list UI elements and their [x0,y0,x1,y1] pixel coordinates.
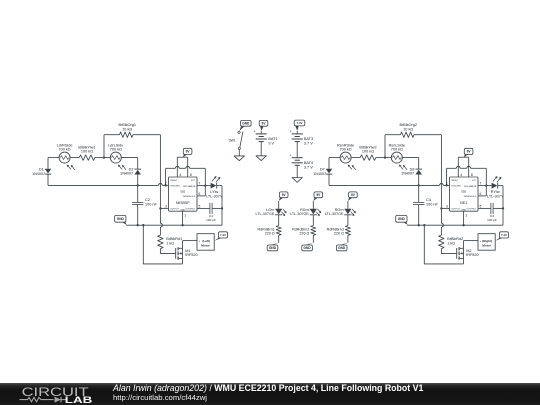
wire chain left segment (D7) [329,157,340,159]
svg-text:555: 555 [180,189,185,193]
junction cap to ground rail [137,224,139,226]
svg-text:CONTROL: CONTROL [466,209,477,211]
wire LED to resistor RdRdBrn3 [347,215,349,226]
node GND [396,215,408,225]
node GND at RdRdBrn3 [336,243,348,251]
svg-text:GND: GND [242,122,250,126]
wire resistor to GND RdRdBrn2 [312,235,314,243]
svg-text:1 kΩ: 1 kΩ [447,241,455,245]
wire to diode D1 [47,158,49,169]
svg-text:7.4V: 7.4V [501,233,507,237]
node GND at switch [239,120,251,130]
wire switch to ground [238,150,240,156]
svg-text:Motor: Motor [201,244,210,248]
wire LED cathode [217,185,223,187]
svg-text:(Right): (Right) [482,239,492,243]
svg-text:7: 7 [199,182,201,186]
wire to LED RGrn [347,201,349,209]
junction pin7-bridge [485,184,487,186]
svg-text:1: 1 [465,213,467,217]
CircuitLab logo [0,383,110,405]
LED RYlw [487,176,504,198]
svg-text:LAB: LAB [65,395,93,405]
svg-text:100 kΩ: 100 kΩ [362,149,374,153]
wire trigger net [329,183,450,185]
wire to diode D8 [418,158,420,170]
wire source return [424,225,463,264]
svg-text:4: 4 [180,173,182,177]
capacitor C1 [197,203,222,222]
wire LED down [221,186,223,226]
wire BAT1 bottom [260,142,262,156]
svg-text:CONTROL: CONTROL [185,209,196,211]
svg-text:RESET: RESET [170,180,178,182]
svg-text:7.4V: 7.4V [297,121,303,125]
wire reset-threshold bridge [166,166,206,196]
svg-text:2: 2 [446,181,448,185]
ground at SW1 [234,156,244,161]
svg-text:3: 3 [446,204,448,208]
svg-text:GND: GND [269,246,277,250]
wire feedback vertical [159,135,161,209]
svg-text:+: + [290,154,292,158]
resistor RdRdBrn2 [292,226,316,236]
node 9V supply [464,148,473,157]
svg-text:6: 6 [199,192,201,196]
resistor BrBlkYlw2 [359,145,376,160]
wire output down with hop [160,208,162,235]
wire pin7 to LED [478,185,492,187]
resistor BrBlkYlw1 [78,145,95,160]
photoresistor LdrRSide [57,143,75,170]
svg-text:LTL-307GE: LTL-307GE [256,212,275,216]
junction bridge-left on trigger [164,184,166,186]
svg-text:VCC: VCC [191,180,196,182]
svg-text:1 kΩ: 1 kΩ [166,241,174,245]
junction diode/cap node [137,184,139,186]
svg-text:5: 5 [480,204,482,208]
resistor BrBlkOrg1 [104,123,160,137]
node GND at RdRdBrn1 [267,243,279,251]
svg-text:700 kΩ: 700 kΩ [59,147,71,151]
wire to diode D7 [328,158,330,169]
wire chain [376,157,392,159]
wire chain right [402,157,418,159]
node GND [115,215,127,225]
svg-text:3.7 V: 3.7 V [304,165,313,169]
photoresistor RsnLSide [389,143,408,170]
capacitor C4 [413,185,438,225]
wire chain [95,157,111,159]
LED LGrn [256,208,287,216]
wire BAT3 top [296,131,298,134]
svg-text:IRF520: IRF520 [466,253,478,257]
svg-text:1: 1 [184,213,186,217]
svg-text:SW1: SW1 [228,138,235,142]
wire BAT1 top [260,131,262,134]
wire feedback vertical [440,135,442,209]
junction diode/cap node [418,184,420,186]
svg-text:IRF520: IRF520 [185,253,197,257]
node 9V supply [183,148,192,157]
svg-text:700 kΩ: 700 kΩ [391,147,403,151]
resistor BrBlkRd2 [439,235,464,249]
wire LED cathode [498,185,504,187]
ground at BAT1 [256,156,266,161]
wire below D2 [137,175,139,186]
junction output-feedback [159,207,161,209]
svg-text:OUTPUT: OUTPUT [451,209,460,211]
svg-text:1N4007: 1N4007 [401,172,414,176]
svg-text:+: + [254,130,256,134]
diode D8 [401,168,422,176]
wire pin7 to LED [197,185,211,187]
resistor RdRdBrn3 [327,226,351,236]
photoresistor LdrLSide [108,143,126,170]
junction C1 right [221,207,223,209]
svg-text:10 kΩ: 10 kΩ [122,127,132,131]
svg-text:100 kΩ: 100 kΩ [81,149,93,153]
op-amp 555 timer NE555P [165,173,201,217]
wire ground rail [407,224,503,226]
junction pin1-rail [181,224,183,226]
svg-text:DISCHARGE: DISCHARGE [183,185,196,188]
LED RGrn [290,208,321,216]
diode D7 [313,168,332,176]
svg-text:8: 8 [471,173,473,177]
wire VCC bridge [177,157,187,177]
junction pin7-bridge [204,184,206,186]
junction chain-to-feedback [103,156,105,158]
svg-text:VCC: VCC [472,180,477,182]
node 7.4V at BAT3 [294,120,305,131]
svg-text:OUTPUT: OUTPUT [170,209,179,211]
wire feedback tap up [384,135,386,158]
svg-text:7.4V: 7.4V [220,233,226,237]
node GND at RdRdBrn2 [302,243,314,251]
junction loop-rail [142,224,144,226]
svg-text:DISCHARGE: DISCHARGE [464,185,477,188]
switch SW1 [228,131,242,149]
wire chain left segment (D1) [48,157,59,159]
svg-text:THRESHOLD: THRESHOLD [463,196,476,198]
transistor M1 [176,241,198,264]
svg-text:LTL-307GE: LTL-307GE [290,212,309,216]
svg-text:7: 7 [480,182,482,186]
wire LED to resistor RdRdBrn2 [312,215,314,226]
svg-text:4: 4 [461,173,463,177]
node 9V at RGrn [348,192,357,201]
svg-text:TRIGGER: TRIGGER [170,186,180,188]
svg-text:LTL-307GE: LTL-307GE [325,212,344,216]
resistor BrBlkOrg2 [385,123,441,137]
motor (Left) Motor [183,234,215,251]
svg-text:100 pF: 100 pF [487,218,497,222]
resistor RdRdBrn1 [257,226,281,236]
svg-text:5: 5 [199,204,201,208]
battery BAT4 [290,154,314,170]
wire VCC bridge [458,157,468,177]
svg-text:Motor: Motor [482,244,491,248]
ground at BAT4 [292,178,302,183]
wire reset-threshold bridge [447,166,487,196]
diode D2 [120,168,141,176]
svg-text:LTL-307Y: LTL-307Y [487,194,504,198]
svg-text:8: 8 [190,173,192,177]
wire gate lead [441,249,456,254]
svg-text:GND: GND [398,217,406,221]
svg-text:NE1: NE1 [460,201,467,205]
svg-text:100 pF: 100 pF [206,218,216,222]
battery BAT1 [254,130,278,146]
svg-text:700 kΩ: 700 kΩ [340,147,352,151]
svg-text:GND: GND [304,246,312,250]
svg-text:555: 555 [461,189,466,193]
svg-text:THRESHOLD: THRESHOLD [182,196,195,198]
wire feedback tap up [103,135,105,158]
svg-text:1N4007: 1N4007 [32,172,45,176]
diode D1 [32,168,51,176]
op-amp 555 timer NE1 [446,173,482,217]
LED RGrn [325,208,356,216]
junction C1 right [502,207,504,209]
node 9V at BAT1 [259,120,268,130]
wire LED down [502,186,504,226]
wire output down with hop [441,208,443,235]
wire ground rail [126,224,222,226]
node 7.4V motor supply [214,232,227,241]
capacitor C2 [132,185,157,225]
battery BAT3 [290,130,314,146]
svg-text:LTL-307Y: LTL-307Y [206,194,223,198]
svg-text:220 Ω: 220 Ω [334,231,344,235]
wire pin1 ground [182,211,184,225]
footer bar [0,383,540,405]
junction loop-rail [423,224,425,226]
wire pin3 output [160,207,168,209]
wire chain [351,157,360,159]
junction bridge-left on trigger [445,184,447,186]
svg-text:NE555P: NE555P [176,201,190,205]
wire chain right [121,157,137,159]
svg-text:100 nF: 100 nF [426,202,439,206]
svg-text:(Left): (Left) [202,239,210,243]
wire pin1 ground [463,211,465,225]
transistor M2 [457,241,479,264]
junction cap to ground rail [418,224,420,226]
svg-text:TRIGGER: TRIGGER [451,186,461,188]
svg-text:700 kΩ: 700 kΩ [110,147,122,151]
photoresistor RsnRSide [337,143,356,170]
wire to LED RGrn [312,201,314,209]
wire BAT3-BAT4 [296,142,298,158]
wire source return [143,225,182,264]
wire to LED LGrn [278,201,280,209]
wire below D8 [418,175,420,186]
svg-text:GND: GND [338,246,346,250]
wire pin6 stub [197,195,205,197]
wire chain [70,157,79,159]
capacitor C3 [478,203,503,222]
svg-text:100 nF: 100 nF [145,202,158,206]
wire below D7 [328,174,330,185]
wire trigger net [48,184,169,186]
wire LED to resistor RdRdBrn1 [278,215,280,226]
svg-text:220 Ω: 220 Ω [265,231,275,235]
wire to diode D2 [137,158,139,170]
wire gate lead [160,249,175,254]
wire resistor to GND RdRdBrn3 [347,235,349,243]
node 9V at RGrn [313,192,322,201]
svg-text:GND: GND [117,217,125,221]
svg-text:6: 6 [480,192,482,196]
wire BAT4 bottom [296,165,298,177]
node 7.4V motor supply [495,232,508,241]
svg-text:2: 2 [165,181,167,185]
wire below D1 [47,174,49,185]
svg-text:220 Ω: 220 Ω [299,231,309,235]
svg-text:9 V: 9 V [268,142,274,146]
svg-text:RESET: RESET [451,180,459,182]
wire pin3 output [441,207,449,209]
svg-text:3: 3 [165,204,167,208]
LED LYlw [206,176,223,198]
svg-text:+: + [290,130,292,134]
junction pin1-rail [462,224,464,226]
junction output-feedback [440,207,442,209]
resistor BrBlkRd1 [158,235,183,249]
svg-text:1N4007: 1N4007 [313,172,326,176]
wire resistor to GND RdRdBrn1 [278,235,280,243]
svg-text:3.7 V: 3.7 V [304,142,313,146]
svg-text:1N4007: 1N4007 [120,172,133,176]
motor (Right) Motor [464,234,496,251]
svg-text:10 kΩ: 10 kΩ [403,127,413,131]
wire pin6 stub [478,195,486,197]
node 9V at LGrn [279,192,288,201]
junction chain-to-feedback [384,156,386,158]
